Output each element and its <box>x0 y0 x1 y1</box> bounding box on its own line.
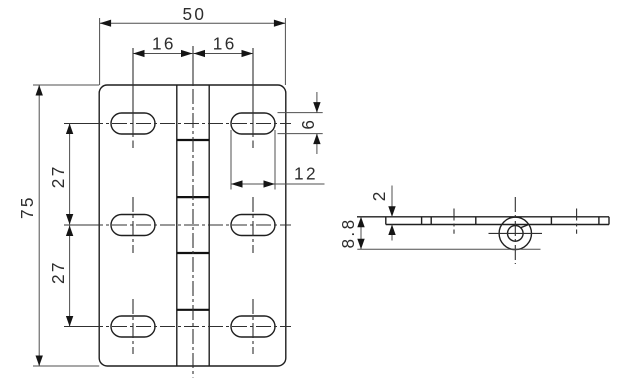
dim 12 left extension line <box>230 130 232 190</box>
dim 8.8 bottom arrow <box>357 239 364 250</box>
row 2 horizontal centerline <box>64 224 291 226</box>
dim 27 upper dimension line <box>69 124 71 226</box>
dim 8.8 bottom extension line <box>357 248 540 250</box>
side view slot edge tick 2 <box>430 217 432 225</box>
top-left hole upper extension line <box>132 48 134 85</box>
dim 27 bottom arrow <box>66 316 73 327</box>
svg-text:6: 6 <box>298 118 318 130</box>
dim 75 top arrow <box>36 85 43 96</box>
dim 12 right extension line <box>274 130 276 190</box>
middle-left hole vertical centerline <box>132 197 134 253</box>
side view left hole centerline <box>453 209 455 234</box>
row 1 left extension segment <box>64 123 100 125</box>
dim 12 right arrow <box>264 180 276 187</box>
knuckle outer circle <box>499 217 531 249</box>
knuckle joint line 3 <box>177 252 209 254</box>
barrel right edge <box>208 85 210 366</box>
top-right hole upper extension line <box>252 48 254 85</box>
side view slot edge tick 5 <box>598 217 600 225</box>
row 1 horizontal centerline <box>64 123 291 125</box>
dim 6 bottom extension line <box>278 133 323 135</box>
side view leaf bottom edge <box>386 224 609 226</box>
dim 12 dimension line <box>231 183 325 185</box>
dim 8.8 dimension line <box>360 217 362 250</box>
middle-right hole vertical centerline <box>252 197 254 253</box>
dim 6 upper arrow stem <box>316 92 318 113</box>
slot hole middle-right <box>231 215 275 236</box>
dim 6 upper arrow <box>313 102 320 113</box>
dim 50 right arrow <box>274 20 286 27</box>
dim 75 bottom extension line <box>33 365 99 367</box>
svg-text:16: 16 <box>152 33 176 53</box>
slot hole bottom-left <box>111 316 155 337</box>
slot hole top-right <box>231 113 275 134</box>
svg-text:12: 12 <box>294 164 318 184</box>
curled leaf end (beak) <box>520 225 528 228</box>
side view slot edge tick 4 <box>550 217 552 225</box>
dim 6 top extension line <box>278 112 323 114</box>
dim 75 top extension line <box>33 84 99 86</box>
dim 75 bottom arrow <box>36 356 43 367</box>
svg-text:27: 27 <box>48 164 68 188</box>
svg-text:2: 2 <box>369 189 389 201</box>
dim 6 lower arrow stem <box>316 134 318 154</box>
side view slot edge tick 1 <box>421 217 423 225</box>
barrel centerline <box>192 85 194 378</box>
dim 27 top arrow <box>66 124 73 135</box>
knuckle joint line 2 <box>177 196 209 198</box>
knuckle joint line 4 <box>177 309 209 311</box>
slot hole bottom-right <box>231 316 275 337</box>
barrel centerline upper extension <box>192 46 194 85</box>
dim 50 dimension line <box>100 22 286 24</box>
dim 2 upper arrow stem <box>391 186 393 217</box>
dim 16 center right-pointing arrow <box>181 50 193 57</box>
knuckle joint line 1 <box>177 139 209 141</box>
dim 16 center left-pointing arrow <box>194 50 206 57</box>
side view leaf top edge (with extension to 8.8/2 dims) <box>357 216 609 218</box>
dim 16 right arrow <box>242 50 254 57</box>
top-left hole vertical centerline <box>132 85 134 148</box>
dim 2 lower arrow stem <box>391 225 393 241</box>
svg-text:16: 16 <box>213 33 237 53</box>
dim 27 middle down arrow <box>66 214 73 225</box>
dim 75 dimension line <box>38 85 40 366</box>
bottom-left hole vertical centerline <box>132 299 134 354</box>
slot hole middle-left <box>111 215 155 236</box>
dim 50 left arrow <box>100 20 112 27</box>
dim 2 lower arrow <box>388 225 395 236</box>
side view slot edge tick 3 <box>475 217 477 225</box>
svg-text:8.8: 8.8 <box>338 217 358 248</box>
svg-text:27: 27 <box>48 260 68 284</box>
side view leaf right end <box>608 217 610 225</box>
bottom-right hole vertical centerline <box>252 299 254 354</box>
top-right hole vertical centerline <box>252 85 254 148</box>
pin hole inner circle <box>508 226 524 242</box>
dim 27 lower dimension line <box>69 225 71 327</box>
dim 16-16 dimension line <box>133 53 253 55</box>
slot hole top-left <box>111 113 155 134</box>
dim 50 right extension line <box>284 18 286 85</box>
dim 2 upper arrow <box>388 206 395 217</box>
dim 6 lower arrow <box>313 134 320 145</box>
pin vertical centerline <box>514 197 516 264</box>
side view right hole centerline <box>576 209 578 234</box>
row 3 left extension segment <box>64 326 100 328</box>
row 2 left extension segment <box>64 224 100 226</box>
hinge plate outline <box>99 85 286 366</box>
row 3 horizontal centerline <box>64 326 291 328</box>
dim 50 left extension line <box>99 18 101 85</box>
dim 27 middle up arrow <box>66 226 73 237</box>
svg-text:50: 50 <box>182 4 206 24</box>
dim 8.8 top arrow <box>357 217 364 228</box>
dim 16 left arrow <box>133 50 145 57</box>
pin horizontal centerline <box>489 232 543 234</box>
barrel left edge <box>176 85 178 366</box>
svg-text:75: 75 <box>17 195 37 219</box>
dim 12 left arrow <box>231 180 243 187</box>
side view leaf left tip <box>385 217 387 225</box>
